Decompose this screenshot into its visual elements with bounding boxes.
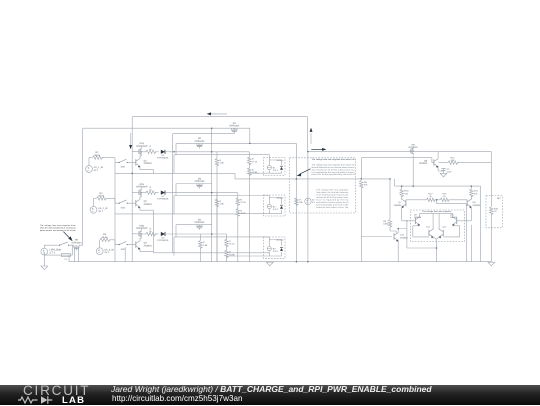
mosfet M5 high side switch [409, 143, 419, 155]
wire V1 top to resistor R1a [89, 158, 92, 166]
wire right vertical bus x=307.9 [307, 117, 309, 262]
svg-text:M0: M0 [75, 239, 79, 242]
wire Q7 emitter up [401, 198, 403, 199]
svg-text:NTR0202: NTR0202 [229, 125, 240, 128]
svg-text:47k: 47k [404, 192, 408, 195]
fuse F1 [61, 254, 70, 262]
annotation dashed note box [290, 158, 356, 213]
svg-text:NTR0202P: NTR0202P [136, 227, 148, 230]
svg-text:2N3904: 2N3904 [414, 216, 422, 219]
svg-text:R8: R8 [364, 181, 368, 184]
transistor Q11 2N3904 latch mid left [426, 226, 433, 239]
wire companion riser x=174 stage 1 [173, 155, 175, 174]
svg-text:49.9k: 49.9k [94, 154, 101, 157]
wire SW3 to transistor Q3 base [127, 244, 136, 246]
wire R1a to switch corner [102, 158, 119, 163]
wire R9 bottom corner to QBL collector [390, 231, 396, 233]
transistor Q2 2N3904 NPN [136, 198, 153, 208]
svg-text:The voltage loss now originate: The voltage loss now originate from when… [312, 158, 356, 161]
wire latch left vertical x=406.9 down [407, 221, 437, 248]
wire Q7 base to R12 [406, 199, 427, 201]
logo resistor squiggle [18, 397, 38, 403]
svg-text:R11: R11 [474, 190, 479, 193]
resistor R13 1k latch mid right [440, 193, 449, 202]
wire latch mid collectors up [433, 213, 439, 229]
CircuitLab logo LAB [62, 395, 85, 406]
svg-text:R9: R9 [383, 220, 387, 223]
wire divider column stage 2 [237, 193, 239, 262]
resistor R2b 1k [146, 186, 157, 194]
svg-text:F1: F1 [65, 258, 68, 261]
svg-text:R: R [150, 227, 152, 230]
svg-text:power source was moving on all: power source was moving on all of this [40, 229, 76, 232]
transistor Q13 2N3904 bottom left [394, 232, 408, 242]
svg-text:M3p: M3p [140, 224, 145, 227]
note title text [312, 158, 356, 161]
wire Q6 collector up to rail [437, 152, 439, 158]
resistor R10 47k latch left [400, 189, 409, 197]
ground small under C1 [440, 173, 447, 177]
svg-text:M5: M5 [412, 143, 416, 146]
wire Q6 emitter down to cap [438, 168, 443, 171]
wire R8 column to QBL base [361, 236, 392, 238]
svg-text:1.8k: 1.8k [203, 244, 208, 247]
svg-text:2N3904: 2N3904 [450, 216, 458, 219]
transistor Q9 2N3904 latch left [414, 213, 422, 226]
svg-text:49.9k: 49.9k [102, 236, 109, 239]
resistor R2e 1.8k [215, 199, 224, 207]
wire M1 gate line left [173, 132, 235, 134]
wire R47k top feed corner [361, 158, 432, 179]
wire divider column stage 3 [226, 234, 228, 262]
wire stage 2 output row [165, 192, 238, 194]
wire latch top rail y=186.1 [395, 179, 481, 186]
svg-text:M3: M3 [198, 177, 202, 180]
svg-text:1k: 1k [149, 189, 152, 192]
svg-text:B2: B2 [273, 205, 276, 208]
svg-text:47k: 47k [474, 192, 478, 195]
resistor R3a 49.9k [100, 233, 111, 241]
wire latch left emitter loop [413, 226, 429, 237]
wire top rail A from node A to right corner [132, 116, 307, 118]
wire R2b to diode D2 [155, 192, 159, 194]
mosfet M2p charge PMOS stage 2 [136, 183, 148, 197]
svg-text:3.8 V: 3.8 V [273, 169, 279, 172]
svg-text:STPS0520L: STPS0520L [157, 198, 170, 201]
svg-text:1.8k: 1.8k [220, 202, 225, 205]
svg-text:R: R [299, 199, 301, 202]
wire SW1 to transistor Q1 base [127, 161, 136, 163]
wire mid-right rail y=178.9 [235, 178, 390, 180]
diode D2 STPS0520 schottky [157, 191, 170, 201]
transistor Q1 2N3904 NPN [136, 157, 153, 167]
resistor R2a 49.9k [97, 192, 108, 200]
annotation arrow from note to M0 [64, 232, 73, 241]
logo diode [41, 396, 48, 404]
wire vertical x=176 companion riser stage1 [175, 143, 177, 154]
svg-text:3.8 V: 3.8 V [273, 208, 279, 211]
wire Q1 collector up to mosfet [140, 156, 141, 157]
svg-text:10k: 10k [299, 201, 303, 204]
svg-text:SW1: SW1 [121, 166, 127, 169]
wire R1b to diode D1 [155, 151, 159, 153]
voltage source V2 5V boost [305, 198, 316, 204]
wire Q3 collector up to mosfet [140, 238, 141, 239]
svg-text:NTR0202P: NTR0202P [136, 186, 148, 189]
ground center under battery3 [266, 262, 273, 266]
resistor R8 47k on mid-right rail [360, 181, 369, 189]
svg-text:B3: B3 [273, 247, 276, 250]
wire Q8 emitter up [470, 198, 472, 199]
resistor R11 47k latch right [470, 189, 479, 197]
svg-text:2N3906: 2N3906 [394, 204, 402, 207]
svg-text:Q8: Q8 [473, 201, 477, 204]
svg-text:3.8 V: 3.8 V [273, 250, 279, 253]
svg-text:2N3904: 2N3904 [144, 162, 153, 165]
svg-text:1k: 1k [429, 195, 432, 198]
resistor R2c 27.1k divider top [236, 198, 247, 206]
wire rail B corner down to mid rail [83, 128, 250, 245]
annotation arrow pointing down at node A column [129, 133, 132, 149]
resistor R3c 27.1k divider top [225, 239, 236, 247]
svg-text:5 V: 5 V [312, 201, 316, 204]
svg-text:Q13: Q13 [400, 234, 405, 237]
wire Q2 emitter path [140, 208, 153, 210]
wire R100k column x=390 [389, 179, 391, 231]
wire step down to mid-right rail [234, 173, 236, 179]
junction dot latch left [406, 220, 408, 222]
svg-text:NTR0202: NTR0202 [195, 180, 206, 183]
resistor R1c 27.1k divider top [248, 157, 259, 165]
resistor R3d 40.9k divider bottom [225, 250, 236, 258]
resistor R2d 40.9k divider bottom [236, 209, 247, 217]
wire latch cross coupling top [420, 213, 453, 215]
svg-text:V2: V2 [312, 199, 315, 202]
battery B3 pack in dashed box [264, 237, 286, 258]
transistor Q7 2N3906 PNP left [394, 198, 406, 208]
note paragraph 1 [312, 163, 356, 176]
svg-text:1.8k: 1.8k [220, 162, 225, 165]
annotation up arrow beside vertical x=307.9 [310, 128, 313, 144]
svg-text:R: R [229, 240, 231, 243]
svg-text:2N3906: 2N3906 [473, 204, 481, 207]
svg-text:D1: D1 [162, 154, 166, 157]
resistor R1d 40.9k divider bottom [248, 168, 259, 176]
svg-text:2N3904: 2N3904 [144, 203, 153, 206]
svg-text:Q11: Q11 [426, 226, 431, 229]
resistor R14 47k top right [448, 156, 459, 164]
svg-text:D3: D3 [162, 236, 166, 239]
svg-text:R: R [220, 159, 222, 162]
voltage source V2 stage 2 reference [90, 206, 108, 213]
wire latch base feeds [407, 220, 471, 222]
load dashed box RPi [486, 196, 502, 228]
wire bottom ground bus [69, 261, 491, 263]
svg-text:R: R [252, 169, 254, 172]
svg-text:M2p: M2p [140, 183, 145, 186]
wire stage2 control line y=213.9 [115, 213, 238, 215]
svg-text:RPi: RPi [497, 197, 501, 200]
footer author/title line [111, 384, 432, 394]
wire long vertical x=132.2 node A column [131, 117, 133, 262]
annotation right arrow on output rail [311, 148, 326, 151]
svg-text:Battery: Battery [277, 238, 285, 241]
wire rail B horizontal [83, 127, 250, 129]
svg-text:2N3904: 2N3904 [419, 162, 428, 165]
resistor R15 load [490, 207, 499, 215]
wire mid rail y=143.4 to vertical x=296.4 [250, 142, 297, 144]
svg-text:STPS0520L: STPS0520L [157, 157, 170, 160]
resistor R3b 1k [146, 227, 157, 235]
resistor R_s 10k in series on x=296.4 [295, 198, 304, 206]
svg-text:4V 1: 4V 1 [98, 210, 104, 213]
wire switch to mosfet M0 [69, 244, 83, 246]
mosfet M3p charge PMOS stage 3 [136, 224, 148, 238]
wire R2e column [216, 193, 218, 262]
svg-text:1k: 1k [149, 148, 152, 151]
svg-text:B1: B1 [273, 166, 276, 169]
capacitor C1 22uF [441, 168, 452, 174]
svg-text:27.1k: 27.1k [240, 201, 246, 204]
svg-text:STPS0520L: STPS0520L [157, 239, 170, 242]
transistor Q3 2N3904 NPN [136, 240, 153, 250]
latch box title [422, 210, 451, 213]
wire V2 top to resistor R2a [94, 198, 97, 206]
wire right edge vertical to load [490, 152, 492, 262]
wire latch output node down to bus [436, 239, 438, 262]
wire fuse up to switch node [70, 245, 72, 255]
footer bar [0, 385, 540, 406]
diode D3 STPS0520 schottky [157, 232, 170, 242]
annotation arrow from note to wire [297, 169, 311, 177]
transistor Q8 2N3906 PNP right [467, 198, 481, 208]
wire battery 3 positive feed [174, 237, 269, 240]
svg-text:R: R [252, 158, 254, 161]
wire mosfet M2p gate to enable column [132, 191, 137, 193]
svg-text:Q6: Q6 [424, 159, 428, 162]
svg-text:R15: R15 [494, 208, 499, 211]
svg-text:Q2: Q2 [144, 200, 148, 203]
ground left under source [41, 266, 48, 270]
wire Q6 base lead [432, 158, 434, 163]
svg-text:batteries here when circuit Th: batteries here when circuit The [316, 206, 349, 209]
svg-text:4V 1: 4V 1 [94, 169, 100, 172]
svg-text:Battery: Battery [277, 159, 285, 162]
svg-text:Q7: Q7 [398, 201, 402, 204]
svg-text:M1p: M1p [140, 142, 145, 145]
svg-text:27.1k: 27.1k [229, 243, 235, 246]
wire R13 to Q8 base [448, 199, 467, 201]
svg-text:Q12: Q12 [442, 226, 447, 229]
svg-text:R13: R13 [442, 193, 447, 196]
junction dots [131, 127, 472, 262]
svg-text:10: 10 [494, 210, 497, 213]
wire mosfet M3p gate to enable column [132, 233, 137, 235]
svg-text:49.9k: 49.9k [98, 195, 105, 198]
wire Q2 collector up to mosfet [140, 197, 141, 198]
switch SW_main [59, 242, 69, 246]
voltage source V_LiPO battery [41, 248, 61, 255]
wire rail2 y=162.6 [439, 162, 492, 164]
battery B2 pack in dashed box [264, 195, 286, 216]
svg-text:power for all bus functionalit: power for all bus functionality and each… [312, 173, 355, 176]
ground right end of bus [488, 262, 495, 266]
mosfet M3 mid column stage2 [195, 177, 206, 188]
svg-text:1k: 1k [149, 230, 152, 233]
svg-text:R: R [203, 241, 205, 244]
battery B1 pack in dashed box [264, 158, 286, 176]
switch SW2 [119, 200, 128, 209]
wire Q13 collector up [398, 229, 407, 232]
svg-text:27.1k: 27.1k [252, 160, 258, 163]
wire source bottom to fuse path [44, 252, 61, 266]
wire mid latch vertical x=466.3 to bus [465, 210, 467, 262]
wire stage 1 output row [165, 151, 249, 153]
wire aux vertical x=125 [124, 247, 126, 262]
wire mid rail y=143.4 left part with M2 [176, 142, 250, 144]
svg-text:M4: M4 [198, 219, 202, 222]
svg-text:NTR0202P: NTR0202P [136, 145, 148, 148]
wire vertical x=172.5 [172, 134, 174, 253]
footer url line [112, 394, 242, 403]
svg-text:R: R [220, 200, 222, 203]
wire Q3 emitter path [140, 250, 153, 252]
mosfet M0 main power PMOS [72, 239, 83, 251]
svg-text:R14: R14 [450, 156, 455, 159]
svg-text:Battery: Battery [277, 196, 285, 199]
svg-text:NTR0202: NTR0202 [195, 221, 206, 224]
wire between R12 R13 node drop [435, 200, 467, 210]
wire R8 column down [360, 188, 362, 262]
svg-text:3.7 V: 3.7 V [50, 252, 56, 255]
wire Q8 collector vertical to bus [470, 225, 472, 262]
note text about main MOSFET [40, 224, 76, 232]
svg-text:40.9k: 40.9k [252, 171, 258, 174]
svg-text:2N3904: 2N3904 [400, 236, 408, 239]
svg-text:2N3904: 2N3904 [144, 244, 153, 247]
svg-text:R: R [150, 145, 152, 148]
transistor Q12 2N3904 latch mid right [439, 226, 447, 239]
latch dashed box [410, 210, 464, 242]
svg-text:NTR0202: NTR0202 [195, 140, 206, 143]
resistor R9 100k [383, 220, 392, 228]
wire M3 row stage2 [176, 183, 212, 185]
svg-text:R: R [240, 199, 242, 202]
voltage source V3 stage 3 reference [96, 248, 114, 255]
mosfet M2 mid column stage1 [195, 137, 206, 148]
wire divider column stage 1 [248, 152, 250, 262]
wire stage 3 output row [165, 233, 227, 235]
wire SW2 to transistor Q2 base [127, 202, 136, 204]
svg-text:Q1: Q1 [144, 159, 148, 162]
svg-text:Q3: Q3 [144, 242, 148, 245]
wire M5 down to latch rail [412, 156, 414, 186]
wire V3 top to resistor R3a [99, 240, 101, 248]
resistor R3e 1.8k [199, 241, 208, 249]
wire M4 row stage3 [176, 224, 212, 226]
mosfet M1p charge PMOS stage 1 [136, 142, 148, 156]
wire battery 2 negative return [238, 213, 269, 215]
wire long vertical x=296.4 down to bus [295, 143, 297, 261]
wire stage3 control line y=252.8 [153, 169, 269, 252]
svg-text:C1: C1 [447, 168, 451, 171]
svg-text:M2: M2 [198, 137, 202, 140]
diode D1 STPS0520 schottky [157, 150, 170, 160]
note paragraph 2 [316, 189, 349, 209]
svg-text:SW2: SW2 [121, 206, 127, 209]
voltage source V1 stage 1 reference [86, 166, 104, 173]
transistor Q10 2N3904 latch right [450, 213, 458, 226]
wire battery 2 positive feed [174, 196, 269, 198]
wire R3a to switch corner [110, 240, 120, 245]
svg-text:4V 1: 4V 1 [104, 251, 110, 254]
resistor R1b 1k [146, 145, 157, 153]
CircuitLab logo text [23, 383, 90, 398]
wire battery 3 negative return [227, 255, 270, 257]
wire R3b to diode D3 [155, 233, 159, 235]
wire Q8 collector down x=471.3 [470, 208, 472, 221]
wire vertical x=211.7 long [211, 128, 213, 262]
wire Q1 emitter path [140, 167, 153, 169]
wire mosfet drain to R1b [141, 152, 146, 156]
svg-text:1k: 1k [443, 195, 446, 198]
wire mosfet drain to R2b [141, 193, 146, 197]
mosfet M4 mid column stage3 [195, 219, 206, 230]
svg-text:R: R [150, 186, 152, 189]
svg-text:NTR4003: NTR4003 [72, 241, 83, 244]
svg-text:The voltage loss now originate: The voltage loss now originate [422, 210, 451, 213]
wire R3e column [199, 234, 201, 262]
annotation current arrow at top [207, 112, 227, 115]
svg-text:47k: 47k [364, 184, 368, 187]
wire R11 stubs [470, 186, 472, 199]
wire right output rail y=151.6 [308, 151, 491, 153]
wire mosfet M1p gate to enable column [132, 151, 137, 153]
wire battery 1 negative return [249, 172, 269, 174]
wire latch right emitter loop [443, 226, 459, 237]
wire latch rail right end down to bus [480, 186, 482, 262]
wire mosfet drain to R3b [141, 234, 146, 238]
wire R2a to switch corner [106, 198, 119, 203]
switch SW1 [119, 159, 128, 168]
wire source top to switch [44, 245, 59, 248]
wire bus left tap x=69 [68, 255, 70, 262]
wire Q13 emitter down to bus [397, 242, 399, 262]
wire companion riser x=174 stage 2 [173, 196, 175, 215]
wire M0 drain down to bus [74, 247, 78, 262]
wire battery 1 positive feed [174, 155, 269, 160]
svg-text:R: R [240, 209, 242, 212]
resistor R1e 1.8k [215, 158, 224, 166]
wire Q7 collector down x=401.7 [402, 208, 407, 221]
svg-text:M1: M1 [233, 122, 237, 125]
svg-text:D2: D2 [162, 195, 166, 198]
mosfet M1 on rail B [229, 122, 240, 133]
switch SW3 [119, 241, 128, 250]
svg-text:NTR0202: NTR0202 [409, 146, 419, 149]
svg-text:R12: R12 [428, 193, 433, 196]
wire companion riser stage3 x=176 [175, 225, 177, 237]
resistor R1a 49.9k [93, 151, 104, 159]
wire companion riser stage2 x=176 [175, 184, 177, 196]
wire latch mid emitters join [433, 237, 439, 239]
svg-text:R10: R10 [404, 190, 409, 193]
wire stage1 control line y=173.4 [115, 162, 235, 261]
wire companion riser x=174 stage 3 [173, 237, 175, 256]
transistor Q6 2N3904 top right [419, 158, 438, 168]
resistor R12 1k latch mid left [427, 193, 436, 202]
svg-text:R: R [229, 251, 231, 254]
